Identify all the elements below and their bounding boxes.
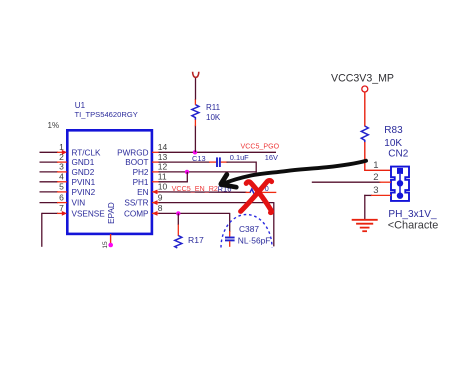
svg-text:U1: U1	[75, 101, 86, 110]
svg-text:16V: 16V	[265, 153, 278, 162]
wire pin5 PVIN2	[40, 191, 68, 193]
svg-text:C13: C13	[192, 154, 206, 163]
svg-text:PH2: PH2	[133, 168, 149, 177]
svg-text:11: 11	[158, 172, 167, 182]
svg-text:R83: R83	[384, 125, 403, 136]
op-amp U1 (regulator IC body TI_TPS54620RGY)	[67, 130, 152, 234]
wire R83 down to CN2 pin1	[364, 142, 391, 171]
resistor R11	[192, 99, 199, 126]
wire CN2 pin3 to ground	[364, 195, 391, 220]
svg-text:8: 8	[158, 203, 163, 213]
wire pin7 VSENSE (elbow down)	[42, 211, 67, 247]
svg-text:RT/CLK: RT/CLK	[72, 148, 102, 157]
annotation black arrow	[221, 161, 366, 187]
wire pin10 EN net VCC5_EN_R2	[152, 190, 276, 195]
svg-text:R17: R17	[188, 235, 204, 245]
svg-text:1%: 1%	[48, 121, 60, 130]
wire from junction up to R11	[194, 126, 196, 153]
wire pin8 COMP with elbow down to C387	[152, 211, 230, 237]
svg-text:6: 6	[59, 192, 64, 202]
junction node COMP/R17	[176, 211, 180, 215]
svg-text:10K: 10K	[384, 138, 402, 149]
svg-text:PVIN2: PVIN2	[72, 188, 96, 197]
svg-text:3: 3	[373, 185, 378, 196]
junction node PH2/PH1 tie	[185, 170, 189, 174]
svg-text:R11: R11	[206, 103, 221, 112]
connector CN2 body	[391, 167, 409, 201]
svg-text:PVIN1: PVIN1	[72, 178, 96, 187]
svg-text:15: 15	[102, 241, 109, 249]
wire from R11 up to off-page fork	[195, 77, 197, 99]
wire CN2 pin2	[312, 181, 391, 183]
svg-text:PH1: PH1	[133, 178, 149, 187]
capacitor C387	[225, 238, 235, 247]
svg-text:C387: C387	[239, 224, 259, 234]
svg-text:TI_TPS54620RGY: TI_TPS54620RGY	[75, 110, 138, 119]
svg-text:5: 5	[59, 182, 64, 192]
svg-text:0.1uF: 0.1uF	[230, 153, 249, 162]
EPAD pin stub with pin number 15	[102, 234, 113, 249]
svg-text:9: 9	[158, 192, 163, 202]
junction node on PWRGD wire	[193, 150, 197, 154]
wire pin9 SS/TR with elbow down	[152, 200, 274, 246]
wire pin4 PVIN1	[40, 181, 68, 183]
svg-text:10K: 10K	[206, 113, 221, 122]
wire pin3 GND2	[40, 171, 68, 173]
highlight ellipse (dashed, clipped at bottom)	[221, 215, 272, 248]
wire junction down to R17	[177, 213, 179, 225]
svg-text:GND2: GND2	[72, 168, 95, 177]
wire pin14 PWRGD net VCC5_PGO	[152, 151, 276, 153]
svg-text:BOOT: BOOT	[125, 158, 148, 167]
resistor R16 (crossed out, horizontal)	[250, 189, 262, 196]
svg-text:EPAD: EPAD	[107, 202, 116, 224]
svg-text:SS/TR: SS/TR	[124, 199, 148, 208]
svg-text:VCC3V3_MP: VCC3V3_MP	[331, 72, 394, 84]
svg-text:14: 14	[158, 142, 168, 152]
svg-text:3: 3	[59, 162, 64, 172]
svg-text:VCC5_PGO: VCC5_PGO	[241, 142, 280, 150]
svg-text:1: 1	[373, 160, 378, 171]
svg-text:EN: EN	[137, 188, 148, 197]
ground	[352, 220, 378, 231]
capacitor C13	[217, 157, 220, 167]
resistor R17	[175, 236, 182, 248]
wire pin13 BOOT with elbow down to PH2	[152, 162, 256, 172]
resistor R83	[361, 126, 368, 143]
wire VCC3V3 down to R83	[364, 92, 366, 126]
wire pin1 RT/CLK	[40, 150, 68, 155]
svg-text:CN2: CN2	[388, 148, 408, 159]
svg-text:<Characte: <Characte	[388, 220, 439, 232]
power symbol open circle	[362, 86, 368, 92]
wire pin6 VIN	[40, 202, 68, 204]
svg-text:13: 13	[158, 152, 168, 162]
svg-text:VIN: VIN	[72, 199, 86, 208]
annotation red X over R16	[241, 180, 272, 212]
svg-text:4: 4	[59, 172, 64, 182]
wire pin12 PH2	[152, 171, 257, 173]
svg-text:PH_3x1V_: PH_3x1V_	[388, 209, 437, 220]
svg-text:GND1: GND1	[72, 158, 95, 167]
svg-text:10: 10	[158, 182, 168, 192]
svg-text:12: 12	[158, 162, 168, 172]
wire junction down to PH1	[186, 172, 188, 182]
svg-text:PWRGD: PWRGD	[117, 148, 148, 157]
off-page connector fork (net stub)	[193, 72, 199, 78]
wire pin11 PH1	[152, 181, 188, 183]
svg-text:VCC5_EN_R2: VCC5_EN_R2	[172, 184, 218, 193]
wire pin2 GND1	[40, 161, 68, 163]
svg-text:VSENSE: VSENSE	[72, 210, 106, 219]
svg-text:NL·56pF: NL·56pF	[238, 235, 271, 245]
svg-text:COMP: COMP	[124, 210, 149, 219]
